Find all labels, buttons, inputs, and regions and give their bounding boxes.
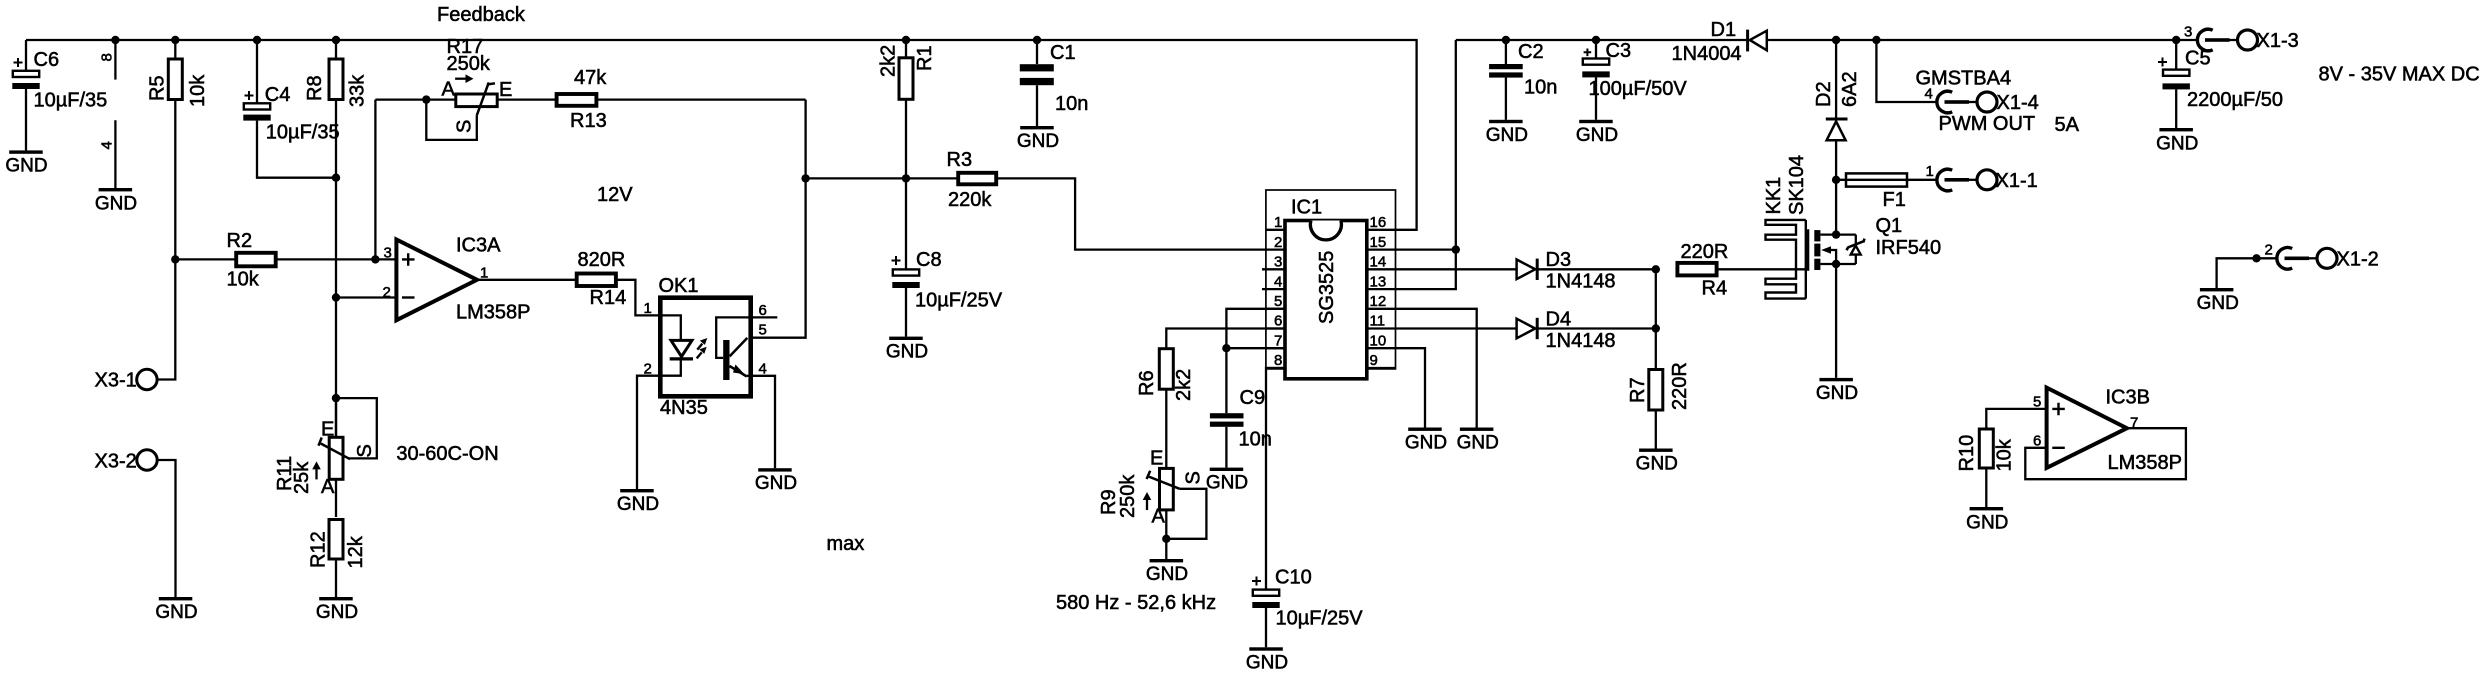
svg-text:3: 3: [2184, 24, 2192, 41]
wire X1-4 branch: [1876, 40, 1938, 102]
wire F1 row: [1836, 179, 1938, 181]
wire R9 wiper loop: [1166, 489, 1206, 539]
svg-text:2: 2: [2265, 242, 2273, 259]
svg-text:15: 15: [1370, 234, 1387, 251]
svg-text:X1-1: X1-1: [1996, 170, 2038, 192]
pin 12 stub: [1367, 308, 1396, 310]
ground under pin 12: [1457, 428, 1499, 454]
diode D3: [1517, 249, 1656, 293]
svg-text:5: 5: [759, 322, 767, 339]
wire R6 to R9: [1165, 389, 1167, 468]
svg-text:GND: GND: [1246, 652, 1288, 673]
junction dot rail/R8: [332, 36, 340, 44]
svg-text:A: A: [1152, 506, 1166, 528]
svg-text:7: 7: [1274, 332, 1282, 349]
capacitor C3: [1582, 40, 1687, 120]
wire pin 8 to C10: [1266, 368, 1285, 590]
svg-text:IRF540: IRF540: [1876, 237, 1942, 259]
junction dot F1 branch: [1832, 176, 1840, 184]
pin 9 stub: [1367, 367, 1396, 369]
op-amp IC3A: [383, 235, 531, 324]
ground under R7: [1636, 449, 1678, 475]
wire opamp pin 2: [336, 296, 396, 298]
connector X1-2: [2265, 242, 2379, 271]
svg-text:2k2: 2k2: [878, 45, 900, 77]
resistor R13: [497, 67, 607, 132]
svg-text:C4: C4: [265, 84, 291, 106]
svg-text:580 Hz - 52,6 kHz: 580 Hz - 52,6 kHz: [1056, 592, 1216, 614]
wire OK1 pin 4 to ground: [751, 376, 775, 468]
svg-text:220k: 220k: [948, 189, 992, 211]
wire R11 to R12: [335, 479, 337, 517]
pin 6 stub: [1266, 327, 1285, 329]
resistor R8: [304, 40, 369, 107]
resistor R5: [147, 40, 210, 107]
ground under C5: [2156, 128, 2198, 155]
svg-text:GND: GND: [1206, 473, 1248, 494]
pin 3 stub: [1262, 268, 1285, 270]
junction dot rail/C1: [1033, 36, 1041, 44]
svg-text:C10: C10: [1275, 567, 1312, 589]
svg-text:LM358P: LM358P: [456, 302, 531, 324]
ground under C3: [1576, 120, 1618, 146]
svg-text:GMSTBA4: GMSTBA4: [1916, 68, 2012, 90]
resistor R6: [1136, 349, 1195, 401]
junction dot rail/R5: [171, 36, 179, 44]
svg-text:A: A: [442, 79, 456, 101]
wire OK1 pin 6 stub: [751, 316, 778, 318]
junction dot D3/R4/R7: [1652, 265, 1660, 273]
wire R9 to ground: [1165, 510, 1167, 559]
svg-text:R14: R14: [590, 287, 627, 309]
svg-text:10k: 10k: [1994, 438, 2016, 471]
svg-text:R4: R4: [1702, 278, 1728, 300]
wire R7 to ground: [1655, 410, 1657, 449]
svg-text:GND: GND: [755, 473, 797, 494]
svg-text:820R: 820R: [578, 249, 626, 271]
pin 2 stub: [1266, 248, 1285, 250]
svg-text:GND: GND: [1576, 125, 1618, 146]
svg-text:10µF/25V: 10µF/25V: [1276, 608, 1364, 630]
wire pin 10 to ground: [1396, 348, 1426, 427]
wire pin 7: [1226, 347, 1285, 349]
svg-text:10k: 10k: [187, 74, 209, 107]
pin 1 stub: [1266, 229, 1285, 231]
wire pin 11 to D4: [1396, 327, 1517, 329]
wire rail right segment feed to pins 15/13: [1396, 40, 1456, 289]
wire R4 to gate: [1718, 268, 1807, 270]
svg-text:GND: GND: [1486, 125, 1528, 146]
svg-text:R8: R8: [304, 75, 326, 101]
ground under C8: [886, 337, 928, 363]
svg-text:C3: C3: [1606, 40, 1632, 62]
svg-text:3: 3: [384, 245, 392, 262]
svg-text:S: S: [354, 444, 376, 457]
svg-text:GND: GND: [155, 602, 197, 623]
svg-text:220R: 220R: [1681, 241, 1729, 263]
wire IC3B feedback loop: [2025, 428, 2186, 479]
pin 15 stub: [1367, 248, 1396, 250]
diode D2: [1813, 71, 1861, 140]
connector X1-4: [1925, 86, 2039, 115]
svg-text:X3-1: X3-1: [95, 370, 137, 392]
svg-text:R13: R13: [570, 110, 607, 132]
pin 5 stub: [1266, 308, 1285, 310]
wire R17 wiper loop: [426, 100, 477, 140]
IC3 power pin 4 stub: [99, 120, 116, 188]
wire D2 branch vertical: [1835, 40, 1837, 119]
resistor R3: [906, 149, 996, 211]
capacitor C1: [1020, 40, 1089, 126]
svg-text:R5: R5: [147, 75, 169, 101]
junction dot rail/X1-4: [1872, 36, 1880, 44]
svg-text:R1: R1: [914, 45, 936, 71]
ground under R10: [1966, 507, 2008, 534]
svg-text:C8: C8: [916, 249, 942, 271]
wire pin 15: [1396, 248, 1456, 250]
wire R1 to mid node: [905, 100, 907, 178]
svg-text:10µF/25V: 10µF/25V: [915, 290, 1003, 312]
svg-text:2: 2: [1274, 234, 1282, 251]
svg-text:3: 3: [1274, 254, 1282, 271]
wire pin 14 to D3: [1396, 268, 1517, 270]
svg-text:1N4004: 1N4004: [1672, 43, 1742, 65]
heatsink KK1: [1763, 155, 1808, 299]
svg-text:R7: R7: [1627, 377, 1649, 403]
svg-text:GND: GND: [1966, 513, 2008, 534]
ground under X3-2: [155, 597, 197, 623]
ground under Q1: [1816, 378, 1858, 404]
svg-text:1N4148: 1N4148: [1546, 330, 1616, 352]
svg-text:E: E: [499, 79, 512, 101]
svg-text:GND: GND: [1636, 454, 1678, 475]
ground under OK1 pin2: [617, 489, 659, 515]
wire R13 to OK1 pin5 vertical: [598, 98, 806, 100]
wire R8 down through junctions: [335, 100, 337, 438]
svg-text:12V: 12V: [597, 184, 633, 206]
svg-text:5A: 5A: [2055, 114, 2080, 136]
transistor Q1 IRF540: [1806, 215, 1941, 271]
wire pin 6 to R6: [1166, 329, 1285, 349]
svg-text:12k: 12k: [345, 535, 367, 568]
svg-text:C6: C6: [34, 49, 60, 71]
capacitor C6: [12, 40, 107, 150]
wire rail after D1: [1767, 39, 2198, 41]
junction dot R11 wiper net: [332, 394, 340, 402]
svg-text:6A2: 6A2: [1839, 71, 1861, 107]
capacitor C5: [2158, 40, 2283, 128]
svg-text:16: 16: [1370, 214, 1387, 231]
connector X1-3: [2184, 24, 2299, 53]
svg-text:10: 10: [1370, 332, 1387, 349]
wire R5 down to X3-1: [157, 100, 175, 380]
svg-text:8: 8: [1274, 352, 1282, 369]
wire OK1 pin 5 to R13 net: [751, 100, 806, 338]
resistor R12: [308, 520, 368, 569]
svg-text:12: 12: [1370, 293, 1387, 310]
svg-text:9: 9: [1370, 352, 1378, 369]
fuse F1: [1846, 173, 1907, 211]
resistor R4: [1677, 241, 1728, 300]
svg-text:2200µF/50: 2200µF/50: [2187, 89, 2283, 111]
ground under R12: [316, 597, 358, 623]
svg-text:10k: 10k: [227, 269, 260, 291]
ground under C9: [1206, 468, 1248, 494]
wire X1-2 branch: [2217, 258, 2278, 288]
svg-text:R12: R12: [308, 531, 330, 568]
svg-text:5: 5: [2033, 394, 2041, 411]
optocoupler OK1: [644, 275, 767, 396]
svg-text:SG3525: SG3525: [1316, 251, 1338, 324]
svg-text:10µF/35: 10µF/35: [34, 90, 108, 112]
svg-text:2: 2: [383, 284, 391, 301]
wire R10 to ground: [1985, 468, 1987, 507]
svg-text:R2: R2: [227, 230, 253, 252]
junction dot R1/R3/C8: [902, 174, 910, 182]
diode D1: [1672, 19, 1767, 65]
svg-text:11: 11: [1370, 313, 1386, 330]
IC U1 SG3525 outline: [1262, 190, 1396, 379]
junction dot rail/C4: [253, 36, 261, 44]
svg-text:R10: R10: [1956, 435, 1978, 472]
potentiometer R17: [375, 36, 512, 133]
svg-text:E: E: [1150, 448, 1163, 470]
capacitor C8: [892, 178, 1003, 336]
svg-text:8V - 35V MAX DC: 8V - 35V MAX DC: [2319, 64, 2480, 86]
wire D3 node down to R7: [1655, 269, 1657, 369]
junction dot source: [1832, 260, 1840, 268]
connector X1-1: [1926, 163, 2038, 192]
junction dot C4/R8: [332, 174, 340, 182]
svg-text:1N4148: 1N4148: [1546, 271, 1616, 293]
svg-text:4: 4: [99, 141, 116, 149]
svg-text:C2: C2: [1518, 41, 1544, 63]
svg-text:GND: GND: [1017, 131, 1059, 152]
svg-text:GND: GND: [1146, 564, 1188, 585]
junction dot R2/pot net/opamp pin3: [371, 255, 379, 263]
svg-text:D2: D2: [1813, 81, 1835, 107]
svg-text:IC3B: IC3B: [2106, 387, 2150, 409]
diode D4: [1517, 309, 1656, 353]
op-amp U2 IC3B: [2033, 387, 2182, 475]
wire pot net down to opamp: [374, 100, 376, 260]
svg-text:S: S: [454, 120, 476, 133]
svg-text:250k: 250k: [447, 53, 491, 75]
resistor R1: [878, 40, 937, 99]
wire X3-2 to ground: [157, 460, 175, 597]
pin 11 stub: [1367, 327, 1396, 329]
svg-text:X1-2: X1-2: [2337, 249, 2379, 271]
pin 7 stub: [1266, 347, 1285, 349]
svg-text:GND: GND: [1457, 433, 1499, 454]
capacitor C4: [243, 40, 339, 144]
junction dot R5/R2: [171, 255, 179, 263]
ground under C10: [1246, 647, 1288, 673]
pin 14 stub: [1367, 268, 1396, 270]
wire source to ground: [1835, 264, 1837, 378]
svg-text:Feedback: Feedback: [437, 4, 526, 26]
pin 16 stub: [1367, 229, 1396, 231]
wire 12V rail right segment: [1456, 39, 1747, 41]
ground under R9: [1146, 559, 1188, 585]
pin 8 stub: [1266, 367, 1285, 369]
svg-text:47k: 47k: [574, 67, 607, 89]
junction dot R17 A terminal: [422, 95, 430, 103]
svg-text:GND: GND: [2197, 293, 2239, 314]
svg-text:GND: GND: [1816, 383, 1858, 404]
svg-text:KK1: KK1: [1763, 177, 1785, 215]
junction dot drain: [1832, 230, 1840, 238]
wire C4 to R8 line: [257, 121, 336, 178]
wire pin 5 to C9: [1226, 309, 1285, 413]
junction dot rail/C2: [1502, 36, 1510, 44]
resistor R14: [477, 249, 626, 309]
svg-text:GND: GND: [617, 494, 659, 515]
resistor R2: [175, 230, 396, 291]
svg-text:S: S: [1183, 471, 1205, 484]
wire OK1 pin 2 to ground: [637, 376, 660, 489]
junction dot X1-2: [2252, 254, 2260, 262]
potentiometer R9: [1098, 448, 1205, 528]
svg-text:GND: GND: [886, 342, 928, 363]
svg-text:D3: D3: [1546, 249, 1572, 271]
svg-text:E: E: [321, 419, 334, 441]
svg-text:D4: D4: [1546, 309, 1572, 331]
svg-text:IC3A: IC3A: [456, 235, 501, 257]
junction dot rail/C5: [2172, 36, 2180, 44]
svg-text:X1-3: X1-3: [2257, 30, 2299, 52]
svg-text:F1: F1: [1883, 189, 1906, 211]
pin 4 stub: [1262, 288, 1285, 290]
svg-text:Q1: Q1: [1876, 215, 1903, 237]
svg-text:max: max: [827, 533, 865, 555]
wire R10 to IC3B pin 5: [1986, 409, 2046, 429]
pin 13 stub: [1367, 288, 1396, 290]
pin 10 stub: [1367, 347, 1396, 349]
svg-text:33k: 33k: [347, 74, 369, 107]
junction dot R9 wiper: [1162, 535, 1170, 543]
resistor R10: [1956, 429, 2016, 472]
LED inside OK1: [660, 315, 681, 340]
wire pin 12 to ground: [1396, 309, 1477, 428]
capacitor C2: [1489, 40, 1557, 120]
phototransistor inside OK1: [716, 317, 751, 358]
svg-text:10µF/35: 10µF/35: [266, 122, 340, 144]
junction dot rail/D2: [1832, 36, 1840, 44]
svg-text:GND: GND: [2156, 134, 2198, 155]
svg-text:100µF/50V: 100µF/50V: [1589, 78, 1688, 100]
connector X3-2: [95, 450, 158, 473]
junction dot D4/R7: [1652, 324, 1660, 332]
LED light arrows: [697, 344, 702, 350]
svg-text:5: 5: [1274, 293, 1282, 310]
wire R14 to OK1 pin 1: [617, 280, 660, 316]
ground under pin 10: [1405, 428, 1447, 454]
wire R3 to IC1 pin 2: [998, 178, 1266, 249]
svg-text:OK1: OK1: [659, 275, 699, 297]
svg-text:PWM OUT: PWM OUT: [1939, 113, 2036, 135]
wire mid node left: [806, 177, 906, 179]
svg-text:4N35: 4N35: [660, 397, 708, 419]
wire R11 wiper loop: [336, 398, 377, 458]
junction dot rail/C3: [1592, 36, 1600, 44]
svg-text:IC1: IC1: [1291, 197, 1322, 219]
svg-text:25k: 25k: [291, 461, 313, 494]
svg-text:GND: GND: [1405, 433, 1447, 454]
svg-text:X3-2: X3-2: [95, 451, 137, 473]
svg-text:1: 1: [1274, 214, 1282, 231]
svg-text:30-60C-ON: 30-60C-ON: [396, 443, 498, 465]
ground under OK1 pin4: [755, 468, 797, 494]
resistor R7: [1627, 362, 1691, 410]
wire R12 to ground: [335, 559, 337, 597]
connector X3-1: [95, 369, 158, 391]
ground under C2: [1486, 120, 1528, 146]
svg-text:1: 1: [644, 300, 652, 317]
capacitor C9: [1210, 387, 1272, 468]
svg-text:4: 4: [1274, 273, 1282, 290]
svg-text:R3: R3: [947, 149, 973, 171]
svg-text:GND: GND: [5, 156, 47, 177]
junction dot pin15 net: [1452, 245, 1460, 253]
ground under X1-2: [2197, 288, 2239, 314]
junction dot rail/R1: [902, 36, 910, 44]
svg-text:1: 1: [1926, 163, 1934, 180]
svg-text:X1-4: X1-4: [1997, 92, 2039, 114]
svg-text:GND: GND: [316, 602, 358, 623]
junction dot pin5/pin7: [1222, 344, 1230, 352]
svg-text:10n: 10n: [1524, 77, 1557, 99]
ground under C1: [1017, 126, 1059, 152]
ground under pin 4 stub: [95, 188, 137, 215]
junction dot rail/pin8: [111, 36, 119, 44]
svg-text:GND: GND: [95, 194, 137, 215]
svg-text:A: A: [321, 476, 335, 498]
potentiometer R11: [274, 398, 376, 498]
svg-text:6: 6: [1274, 313, 1282, 330]
ground under C6: [5, 150, 47, 176]
junction dot pin5 net/mid wire: [801, 174, 809, 182]
wire D2 to F1 node and MOSFET drain: [1835, 140, 1837, 234]
svg-text:8: 8: [99, 53, 116, 61]
IC3 power pin 8 stub: [99, 40, 116, 80]
svg-text:250k: 250k: [1117, 474, 1139, 518]
capacitor C10: [1252, 567, 1363, 648]
svg-text:13: 13: [1370, 273, 1387, 290]
junction dot R8/opamp pin2: [332, 293, 340, 301]
svg-text:2k2: 2k2: [1173, 369, 1195, 401]
svg-text:C9: C9: [1240, 387, 1266, 409]
svg-text:14: 14: [1370, 254, 1387, 271]
svg-text:D1: D1: [1711, 19, 1737, 41]
svg-text:C1: C1: [1050, 42, 1076, 64]
svg-text:LM358P: LM358P: [2108, 452, 2183, 474]
svg-text:10n: 10n: [1055, 93, 1088, 115]
wire 12V rail left segment: [26, 40, 1417, 230]
svg-text:R6: R6: [1136, 370, 1158, 396]
svg-text:220R: 220R: [1669, 362, 1691, 410]
svg-text:SK104: SK104: [1786, 155, 1808, 215]
